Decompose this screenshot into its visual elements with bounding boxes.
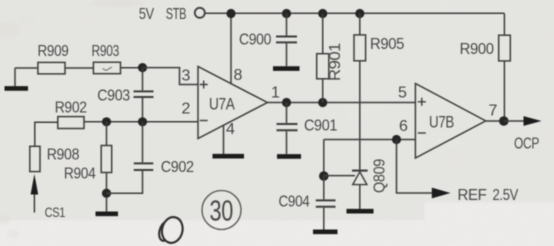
wire inverting input line (pin 2 net) [84,121,198,123]
wire node A to U7A pin3 [143,68,199,85]
node C901 junction [282,98,291,107]
svg-text:R903: R903 [92,43,120,60]
svg-text:C903: C903 [97,88,130,105]
svg-text:C901: C901 [304,118,337,135]
svg-text:R905: R905 [370,36,404,53]
node R901 junction [318,98,327,107]
ground (C900) [273,66,300,71]
ground (top left) [14,68,16,86]
node R904 junction [102,117,111,126]
node R904/C902 junction [102,189,111,198]
wire U7B output [486,120,505,122]
node CS1 arrow [33,193,35,213]
svg-text:R904: R904 [64,166,96,183]
node rail/R905 junction [355,9,364,18]
svg-text:R908: R908 [47,147,80,164]
resistor R902 [58,117,84,129]
svg-text:8: 8 [234,67,243,84]
svg-text:2.5V: 2.5V [493,187,519,204]
wire C904 node to zener [324,175,355,177]
wire R900 to pin7 node [503,61,505,121]
svg-text:R900: R900 [460,41,494,58]
resistor R905 [359,14,361,35]
node pin7 junction [499,116,509,126]
wire pin6 down to C904 [323,140,325,177]
wire rail to R900 [503,14,505,36]
ground (C901) [277,154,301,159]
node rail/pin8 junction [226,9,235,18]
capacitor C903 [142,68,144,91]
node handwritten mark [159,215,185,245]
resistor R909 [38,62,65,74]
wire R902 to R908 [35,122,58,146]
svg-text:U7A: U7A [209,96,235,114]
svg-text:1: 1 [271,85,280,102]
capacitor C904 [323,176,325,199]
svg-text:STB: STB [166,6,187,23]
svg-text:R902: R902 [55,100,87,117]
wire 5V STB rail [205,12,505,14]
svg-text:Q809: Q809 [372,159,389,193]
svg-text:U7B: U7B [429,114,454,132]
svg-text:6: 6 [399,118,408,135]
ground (U7A pin 4) [213,154,245,159]
op-amp U7B [415,84,485,159]
resistor R901 [322,14,324,54]
svg-text:5V: 5V [139,6,155,23]
svg-text:C902: C902 [161,159,194,176]
wire U7A pin 4 to ground [223,125,225,154]
capacitor C900 [286,14,288,36]
resistor R903 [93,62,120,73]
svg-text:OCP: OCP [514,136,539,153]
node rail/R901 junction [318,9,327,18]
ground (C904) [313,230,338,235]
wire U7A output to U7B pin 5 [267,102,415,104]
node C903/C902 junction [138,117,147,126]
capacitor C902 [142,122,144,163]
svg-text:2: 2 [182,101,191,118]
wire ground to R909 [15,67,38,69]
ground (Q809) [347,209,374,214]
op-amp U7A [198,67,267,139]
svg-text:7: 7 [489,103,498,120]
wire U7A pin 8 to rail [230,14,232,85]
node C904 junction [319,171,329,181]
resistor R904 [106,122,108,146]
svg-text:REF: REF [458,187,488,204]
node 5V STB terminal circle [195,8,205,18]
node REF junction [392,135,401,144]
capacitor C901 [286,103,288,123]
resistor R908 [30,146,40,171]
wire REF 2.5V arrow [397,140,433,194]
svg-text:5: 5 [398,85,407,102]
wire R903 to node A [121,67,143,69]
zener diode Q809 [352,170,368,172]
node circled 30 [202,191,241,230]
svg-text:R901: R901 [327,42,344,81]
svg-text:30: 30 [210,196,234,228]
wire R909 to R903 [65,67,93,69]
svg-text:4: 4 [226,121,235,138]
svg-text:C904: C904 [279,194,310,211]
svg-text:R909: R909 [38,43,69,60]
scan smudges [0,0,144,238]
wire R905 to zener (crosses nets, no dots) [359,61,361,170]
node OCP arrow [504,120,525,122]
svg-text:3: 3 [182,68,191,85]
ground (below R904) [96,212,119,217]
svg-text:CS1: CS1 [45,204,66,220]
svg-text:C900: C900 [239,32,271,49]
node A junction [138,63,147,72]
wire U7B pin 6 net [324,139,416,141]
resistor R900 [499,35,511,61]
node rail/C900 junction [282,9,291,18]
